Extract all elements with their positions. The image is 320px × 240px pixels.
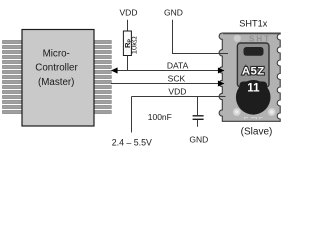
svg-text:100nF: 100nF: [148, 112, 172, 122]
sensor top-left pad: [234, 35, 241, 42]
arrowhead DATA left: [111, 67, 118, 73]
svg-text:(Slave): (Slave): [241, 126, 273, 137]
svg-text:GND: GND: [189, 134, 208, 144]
wire SCK: [111, 83, 224, 85]
svg-text:VDD: VDD: [168, 87, 186, 97]
sensor cap panel: [237, 43, 269, 87]
sensor vent slot: [244, 47, 264, 56]
wire GND to sensor: [173, 20, 229, 54]
micro-controller U1 right pins: [94, 41, 111, 114]
svg-text:VDD: VDD: [120, 8, 138, 18]
micro-controller U1 label: [35, 49, 78, 89]
svg-text:SHT1x: SHT1x: [239, 18, 267, 28]
wire VDD rail: [132, 96, 226, 98]
svg-text:GND: GND: [164, 8, 183, 18]
svg-text:(Master): (Master): [38, 77, 74, 88]
wire DATA: [112, 70, 225, 72]
svg-text:Micro-: Micro-: [43, 49, 70, 60]
arrowhead DATA right: [218, 68, 225, 74]
svg-text:DATA: DATA: [167, 61, 189, 71]
sensor bottom fiducial marks: [245, 118, 263, 120]
sensor bottom-right pad: [268, 108, 276, 116]
sensor shield badge: [240, 82, 268, 96]
capacitor C1 100nF: [197, 97, 199, 116]
svg-text:A5Z: A5Z: [242, 65, 265, 77]
svg-text:SHT: SHT: [249, 34, 271, 43]
sensor U2 body (scalloped package): [219, 33, 280, 121]
wire resistor to DATA node: [127, 56, 129, 71]
wire supply stub: [131, 97, 133, 133]
wire VDD to resistor: [127, 20, 129, 31]
micro-controller U1 body: [22, 30, 94, 127]
sensor bottom-left pad: [233, 108, 241, 116]
svg-text:Controller: Controller: [35, 63, 78, 74]
svg-text:2.4 – 5.5V: 2.4 – 5.5V: [112, 138, 152, 148]
sensor top edge shade: [223, 33, 280, 35]
svg-text:10kΩ: 10kΩ: [130, 36, 139, 54]
svg-text:SCK: SCK: [168, 74, 186, 84]
micro-controller U1 left pins: [3, 41, 23, 114]
svg-text:11: 11: [247, 82, 260, 95]
arrowhead SCK right: [218, 81, 225, 87]
resistor Rp: [123, 31, 131, 56]
